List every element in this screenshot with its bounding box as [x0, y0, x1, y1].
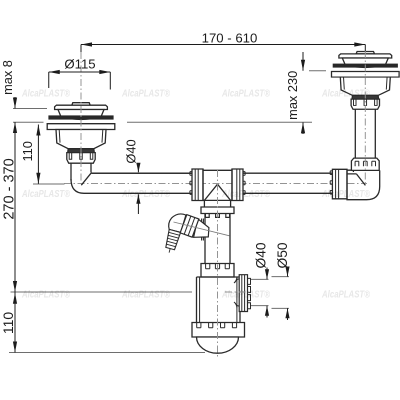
trap outlet nut	[239, 275, 250, 312]
arrow 170-610 right	[354, 42, 365, 46]
dim line D40 outlet	[266, 268, 268, 318]
tee body	[203, 169, 232, 200]
ref line pipe axis left	[33, 183, 65, 185]
hose connector boss collar	[202, 219, 204, 241]
tee flange tabs	[205, 214, 229, 218]
arrow 110 bottom down	[13, 342, 17, 353]
hose connector barb	[163, 229, 180, 254]
trap bottom nut	[192, 323, 245, 338]
right elbow	[347, 170, 380, 200]
left strainer	[47, 103, 115, 164]
tee right nut	[232, 169, 245, 201]
wire: left pipe top edge	[92, 172, 192, 174]
left strainer pipe	[71, 163, 91, 180]
dim line max230	[302, 52, 304, 134]
arrow D40 outlet up	[265, 306, 269, 316]
arrow D115 right	[99, 70, 110, 74]
ref line flange level long	[127, 121, 312, 123]
svg-text:max 8: max 8	[0, 60, 15, 95]
svg-text:170 - 610: 170 - 610	[202, 31, 258, 46]
svg-text:Ø40: Ø40	[254, 242, 269, 268]
arrow 110 left up	[36, 125, 40, 136]
svg-text:110: 110	[0, 312, 16, 335]
trap dome	[197, 337, 239, 353]
svg-text:AlcaPLAST®: AlcaPLAST®	[321, 89, 370, 100]
centerline left strainer	[80, 52, 82, 184]
right strainer	[332, 51, 400, 109]
ref lines outlet dia 50	[272, 277, 290, 309]
hose connector axis line	[174, 222, 230, 236]
svg-text:Ø115: Ø115	[64, 57, 95, 72]
dim line 170-610	[81, 44, 365, 46]
arrow D115 left	[49, 70, 60, 74]
arrow max8 up	[13, 122, 17, 133]
arrow 110 left down	[36, 173, 40, 184]
tailpipe	[205, 214, 230, 264]
dim line D40 tee	[137, 164, 139, 215]
svg-text:AlcaPLAST®: AlcaPLAST®	[21, 290, 70, 301]
svg-text:Ø50: Ø50	[275, 242, 290, 268]
svg-text:AlcaPLAST®: AlcaPLAST®	[221, 290, 270, 301]
trap top nut	[201, 264, 234, 278]
centerline trap	[217, 170, 219, 359]
svg-text:Ø40: Ø40	[123, 139, 138, 163]
centerline right strainer	[364, 51, 366, 185]
svg-text:270 - 370: 270 - 370	[2, 158, 18, 219]
dim line D50 outlet	[287, 268, 289, 321]
dim line max8 / 270-370	[14, 97, 16, 353]
svg-text:AlcaPLAST®: AlcaPLAST®	[221, 89, 270, 100]
watermark layer	[21, 89, 370, 301]
dim line 110 left	[37, 125, 39, 184]
trap body	[197, 277, 241, 322]
arrow D40 tee up	[136, 194, 140, 204]
arrow D50 outlet down	[285, 267, 289, 277]
tee flange	[201, 207, 234, 214]
svg-text:AlcaPLAST®: AlcaPLAST®	[121, 89, 170, 100]
svg-text:110: 110	[20, 141, 35, 161]
arrow max8 down	[13, 98, 17, 109]
hose connector cone	[194, 219, 209, 238]
right elbow nut	[330, 169, 347, 199]
right strainer pipe	[355, 109, 375, 158]
svg-text:AlcaPLAST®: AlcaPLAST®	[221, 189, 270, 200]
arrow D50 outlet up	[285, 308, 289, 318]
arrow D40 outlet down	[265, 269, 269, 279]
svg-text:AlcaPLAST®: AlcaPLAST®	[321, 189, 370, 200]
arrow 170-610 left	[81, 42, 92, 46]
hose connector elbow	[169, 214, 186, 232]
left elbow	[71, 173, 192, 193]
svg-text:AlcaPLAST®: AlcaPLAST®	[121, 290, 170, 301]
ref line trap bottom	[9, 352, 205, 354]
dim line D115	[49, 71, 111, 73]
svg-text:max 230: max 230	[285, 71, 300, 120]
tee left nut	[190, 169, 203, 201]
arrow max230 up	[301, 122, 305, 133]
svg-text:AlcaPLAST®: AlcaPLAST®	[321, 290, 370, 301]
mid pipe right	[243, 173, 332, 193]
ref line sink level left	[13, 108, 47, 110]
svg-text:AlcaPLAST®: AlcaPLAST®	[121, 189, 170, 200]
svg-text:AlcaPLAST®: AlcaPLAST®	[21, 89, 70, 100]
arrow 110 bottom up	[13, 293, 17, 304]
centerline outlet	[225, 291, 251, 293]
ref line outlet axis	[11, 291, 193, 293]
trap outlet cone	[234, 276, 243, 309]
svg-text:AlcaPLAST®: AlcaPLAST®	[21, 189, 70, 200]
arrow 270-370 down	[13, 281, 17, 292]
arrow D40 tee down	[136, 163, 140, 173]
ref lines outlet dia 40	[251, 279, 269, 305]
right vertical nut	[351, 158, 379, 170]
ref line flange level left	[13, 121, 44, 123]
tee neck	[204, 200, 230, 207]
ref line right flange level	[309, 70, 326, 72]
tee cone	[204, 184, 230, 200]
arrow max230 down	[301, 60, 305, 71]
centerline horizontal pipe (under fittings)	[64, 183, 367, 185]
hose connector nut	[180, 215, 199, 238]
